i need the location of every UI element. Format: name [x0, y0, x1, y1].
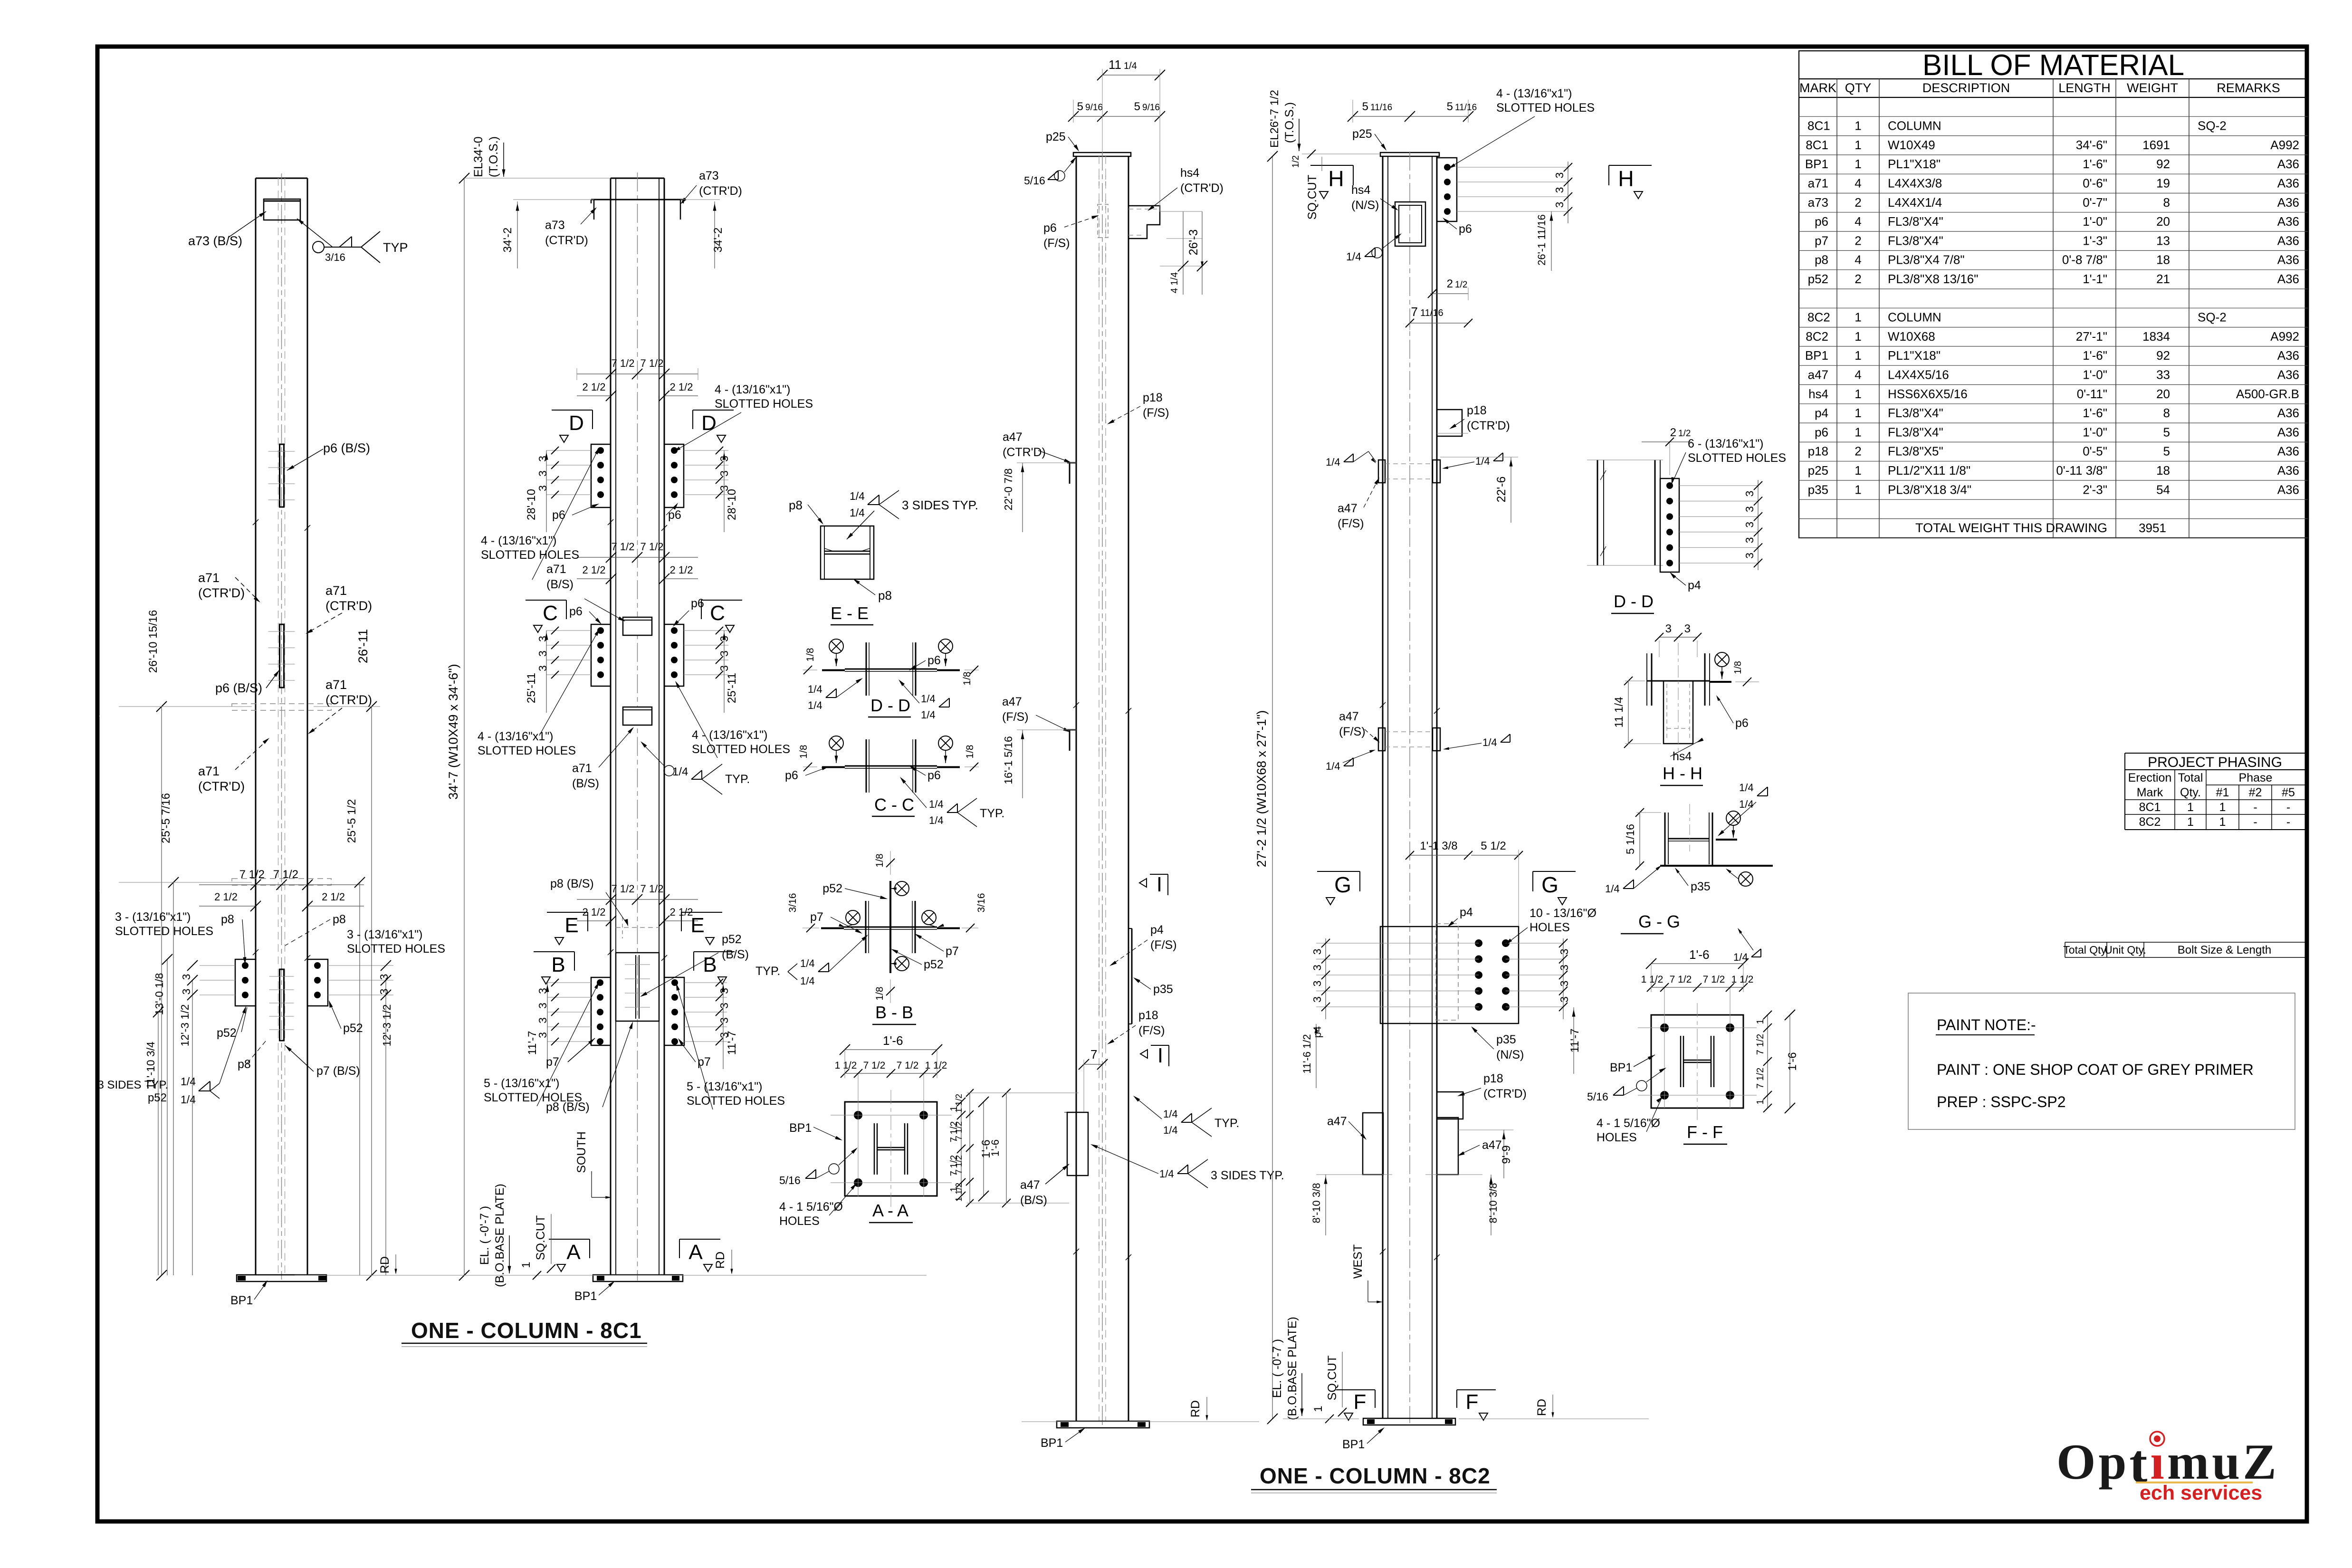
svg-text:1/2: 1/2	[1291, 155, 1301, 168]
svg-text:F: F	[1354, 1390, 1367, 1414]
svg-text:3/16: 3/16	[787, 893, 798, 913]
svg-text:(CTR'D): (CTR'D)	[1180, 182, 1224, 195]
svg-text:1/4: 1/4	[1739, 782, 1754, 794]
svg-text:5 1/2: 5 1/2	[1481, 840, 1506, 852]
svg-text:1: 1	[1855, 482, 1861, 497]
svg-text:p7 (B/S): p7 (B/S)	[316, 1064, 360, 1078]
svg-text:(N/S): (N/S)	[1351, 199, 1379, 212]
svg-text:a47: a47	[1020, 1178, 1040, 1192]
svg-text:7 1/2: 7 1/2	[954, 1155, 964, 1174]
svg-text:SQ-2: SQ-2	[2198, 119, 2227, 133]
svg-text:(CTR'D): (CTR'D)	[545, 234, 588, 247]
svg-text:3: 3	[378, 974, 390, 980]
svg-text:DESCRIPTION: DESCRIPTION	[1922, 81, 2010, 95]
svg-text:SLOTTED HOLES: SLOTTED HOLES	[115, 925, 213, 938]
svg-text:H: H	[1618, 166, 1634, 191]
svg-text:4 - 1 5/16"Ø: 4 - 1 5/16"Ø	[1597, 1117, 1660, 1130]
svg-text:0'-11 3/8": 0'-11 3/8"	[2056, 463, 2107, 478]
svg-text:FL3/8"X4": FL3/8"X4"	[1888, 425, 1943, 439]
svg-text:FL3/8"X4": FL3/8"X4"	[1888, 214, 1943, 229]
svg-text:1/4: 1/4	[929, 814, 944, 826]
svg-text:0'-6": 0'-6"	[2083, 176, 2107, 191]
svg-text:2: 2	[1670, 426, 1676, 439]
svg-text:p6: p6	[1735, 717, 1749, 730]
svg-text:7 1/2: 7 1/2	[641, 541, 664, 553]
svg-text:A36: A36	[2277, 482, 2299, 497]
svg-text:3: 3	[1311, 996, 1323, 1003]
svg-text:B: B	[703, 953, 717, 976]
svg-text:p8 (B/S): p8 (B/S)	[550, 877, 594, 890]
svg-text:p18: p18	[1808, 444, 1828, 459]
svg-text:(CTR'D): (CTR'D)	[1003, 446, 1046, 459]
svg-text:p6: p6	[668, 508, 681, 522]
svg-text:3: 3	[718, 1003, 730, 1009]
svg-text:1/4: 1/4	[672, 765, 688, 778]
svg-text:QTY: QTY	[1845, 81, 1872, 95]
svg-text:3: 3	[1743, 506, 1756, 512]
svg-text:WEST: WEST	[1351, 1244, 1365, 1279]
svg-text:TYP.: TYP.	[725, 773, 750, 786]
svg-text:SLOTTED HOLES: SLOTTED HOLES	[715, 397, 813, 411]
svg-text:11'-7: 11'-7	[1568, 1029, 1581, 1053]
svg-text:1: 1	[1755, 1019, 1766, 1024]
svg-text:PL1"X18": PL1"X18"	[1888, 348, 1941, 363]
svg-text:5 1/16: 5 1/16	[1624, 824, 1636, 854]
svg-text:H - H: H - H	[1663, 764, 1702, 783]
svg-text:7 1/2: 7 1/2	[612, 357, 635, 369]
svg-text:L4X4X5/16: L4X4X5/16	[1888, 368, 1949, 382]
svg-text:8: 8	[2163, 406, 2170, 420]
svg-text:A36: A36	[2277, 233, 2299, 248]
svg-text:A36: A36	[2277, 425, 2299, 439]
svg-text:5: 5	[1362, 100, 1368, 113]
svg-text:p6: p6	[1459, 222, 1472, 236]
svg-text:1 1/2: 1 1/2	[954, 1183, 964, 1202]
svg-text:(F/S): (F/S)	[1150, 938, 1177, 952]
svg-text:(B.O.BASE PLATE): (B.O.BASE PLATE)	[1286, 1317, 1299, 1420]
svg-text:(F/S): (F/S)	[1338, 517, 1364, 530]
svg-text:4: 4	[1855, 214, 1861, 229]
svg-text:BP1: BP1	[1805, 348, 1828, 363]
svg-text:A36: A36	[2277, 463, 2299, 478]
svg-text:(CTR'D): (CTR'D)	[1467, 419, 1510, 432]
svg-text:p4: p4	[1815, 406, 1828, 420]
svg-text:54: 54	[2156, 482, 2170, 497]
svg-text:11/16: 11/16	[1370, 103, 1392, 113]
svg-text:1'-1 3/8: 1'-1 3/8	[1420, 840, 1457, 852]
svg-text:3: 3	[1743, 522, 1756, 528]
svg-text:a47: a47	[1808, 368, 1828, 382]
svg-text:p52: p52	[1808, 272, 1828, 286]
svg-text:3: 3	[1743, 491, 1756, 497]
svg-text:1'-6: 1'-6	[1786, 1052, 1799, 1071]
svg-text:SLOTTED HOLES: SLOTTED HOLES	[484, 1091, 582, 1104]
svg-text:-: -	[2286, 801, 2290, 814]
svg-text:1'-6": 1'-6"	[2083, 348, 2107, 363]
svg-text:1/8: 1/8	[874, 986, 885, 1000]
svg-text:p35: p35	[1808, 482, 1828, 497]
svg-text:A36: A36	[2277, 406, 2299, 420]
svg-text:1/8: 1/8	[874, 853, 885, 867]
svg-text:1691: 1691	[2142, 138, 2170, 152]
svg-text:21: 21	[2156, 272, 2170, 286]
svg-text:27'-2 1/2 (W10X68 x 27'-1"): 27'-2 1/2 (W10X68 x 27'-1")	[1254, 710, 1269, 868]
svg-text:Phase: Phase	[2239, 771, 2273, 784]
svg-text:A: A	[566, 1241, 581, 1264]
svg-text:1: 1	[1755, 1099, 1766, 1104]
svg-text:FL3/8"X5": FL3/8"X5"	[1888, 444, 1943, 459]
svg-text:a47: a47	[1339, 710, 1359, 723]
svg-text:1'-6": 1'-6"	[2083, 157, 2107, 171]
svg-text:HOLES: HOLES	[779, 1214, 820, 1228]
svg-text:8: 8	[2163, 195, 2170, 210]
svg-text:26'-11: 26'-11	[356, 629, 370, 663]
svg-text:I: I	[1157, 873, 1162, 896]
svg-text:9/16: 9/16	[1085, 103, 1103, 113]
svg-text:(CTR'D): (CTR'D)	[198, 586, 245, 600]
svg-text:PL1/2"X11 1/8": PL1/2"X11 1/8"	[1888, 463, 1970, 478]
svg-text:(B/S): (B/S)	[546, 578, 574, 591]
svg-text:PROJECT PHASING: PROJECT PHASING	[2148, 755, 2282, 770]
svg-text:hs4: hs4	[1180, 166, 1199, 180]
svg-text:H: H	[1328, 166, 1344, 191]
svg-text:9/16: 9/16	[1142, 103, 1160, 113]
svg-text:a73: a73	[545, 219, 565, 232]
svg-text:BP1: BP1	[1342, 1438, 1365, 1451]
svg-text:1/4: 1/4	[808, 683, 822, 695]
svg-text:33: 33	[2156, 368, 2170, 382]
svg-text:EL. ( -0'-7 ): EL. ( -0'-7 )	[1271, 1339, 1284, 1398]
svg-text:2 1/2: 2 1/2	[670, 381, 693, 393]
svg-text:3: 3	[536, 485, 549, 491]
svg-text:1/2: 1/2	[1455, 280, 1467, 290]
svg-text:p6: p6	[927, 769, 941, 782]
svg-text:PL1"X18": PL1"X18"	[1888, 157, 1941, 171]
svg-text:16'-1 5/16: 16'-1 5/16	[1002, 736, 1014, 784]
svg-text:p6: p6	[1815, 214, 1828, 229]
svg-text:FL3/8"X4": FL3/8"X4"	[1888, 406, 1943, 420]
svg-text:p52: p52	[822, 882, 842, 895]
svg-text:p52: p52	[148, 1091, 167, 1104]
svg-text:1/4: 1/4	[1124, 61, 1137, 71]
svg-text:COLUMN: COLUMN	[1888, 310, 1941, 325]
svg-text:1: 1	[1855, 387, 1861, 401]
svg-text:2: 2	[1855, 444, 1861, 459]
svg-text:a71: a71	[325, 583, 347, 598]
svg-text:Total Qty.: Total Qty.	[2063, 944, 2108, 956]
svg-text:1: 1	[2219, 801, 2226, 814]
svg-text:5: 5	[1447, 100, 1453, 113]
svg-text:p7: p7	[546, 1055, 559, 1069]
svg-text:PREP : SSPC-SP2: PREP : SSPC-SP2	[1937, 1093, 2066, 1110]
svg-text:1'-0": 1'-0"	[2083, 214, 2107, 229]
svg-text:(B/S): (B/S)	[722, 948, 749, 961]
svg-text:(CTR'D): (CTR'D)	[198, 779, 245, 794]
svg-text:1/8: 1/8	[1733, 661, 1743, 674]
svg-text:a47: a47	[1338, 502, 1358, 515]
svg-text:SQ.CUT: SQ.CUT	[1326, 1356, 1339, 1400]
svg-text:1'-6: 1'-6	[883, 1033, 903, 1048]
svg-text:EL26'-7 1/2: EL26'-7 1/2	[1268, 90, 1281, 148]
svg-text:a47: a47	[1003, 430, 1023, 444]
svg-text:-: -	[2253, 815, 2257, 829]
svg-text:E: E	[564, 914, 578, 937]
svg-text:18: 18	[2156, 463, 2170, 478]
svg-text:p7: p7	[698, 1055, 711, 1069]
svg-text:p25: p25	[1808, 463, 1828, 478]
svg-text:8C1: 8C1	[1806, 138, 1828, 152]
svg-text:8C2: 8C2	[2139, 815, 2161, 829]
svg-text:A36: A36	[2277, 272, 2299, 286]
svg-text:1: 1	[1855, 119, 1861, 133]
svg-text:hs4: hs4	[1673, 750, 1692, 763]
svg-text:26'-1 11/16: 26'-1 11/16	[1536, 214, 1548, 266]
svg-text:20: 20	[2156, 214, 2170, 229]
svg-text:PL3/8"X18 3/4": PL3/8"X18 3/4"	[1888, 482, 1971, 497]
svg-text:a47: a47	[1002, 695, 1022, 708]
svg-text:p6: p6	[569, 605, 583, 618]
svg-text:D - D: D - D	[870, 696, 910, 715]
svg-text:(B.O.BASE PLATE): (B.O.BASE PLATE)	[493, 1184, 507, 1287]
svg-text:p8: p8	[333, 913, 346, 926]
svg-text:3/16: 3/16	[325, 251, 345, 263]
svg-text:a71: a71	[198, 764, 220, 778]
svg-text:1/4: 1/4	[1605, 883, 1620, 895]
svg-text:D - D: D - D	[1614, 592, 1654, 611]
svg-text:3: 3	[1311, 981, 1323, 987]
svg-text:3: 3	[180, 974, 192, 980]
svg-text:1/4: 1/4	[1163, 1124, 1178, 1136]
svg-text:1/4: 1/4	[1739, 798, 1754, 810]
svg-text:1'-3": 1'-3"	[2083, 233, 2107, 248]
svg-text:34'-7 (W10X49 x 34'-6"): 34'-7 (W10X49 x 34'-6")	[446, 664, 460, 800]
svg-text:27'-1": 27'-1"	[2076, 329, 2107, 344]
svg-text:(F/S): (F/S)	[1143, 406, 1169, 420]
svg-text:BP1: BP1	[230, 1294, 253, 1307]
svg-text:SLOTTED HOLES: SLOTTED HOLES	[692, 743, 790, 756]
svg-text:a47: a47	[1482, 1138, 1502, 1152]
svg-text:G - G: G - G	[1638, 912, 1680, 931]
svg-text:8'-10 3/8: 8'-10 3/8	[1310, 1183, 1322, 1224]
svg-text:4: 4	[1855, 253, 1861, 267]
svg-text:SLOTTED HOLES: SLOTTED HOLES	[478, 744, 576, 757]
svg-text:BP1: BP1	[1805, 157, 1828, 171]
svg-text:SQ-2: SQ-2	[2198, 310, 2227, 325]
svg-text:26'-3: 26'-3	[1187, 229, 1200, 256]
svg-text:3: 3	[1558, 981, 1570, 987]
svg-text:7 1/2: 7 1/2	[1703, 974, 1725, 985]
svg-text:a71: a71	[325, 678, 347, 692]
svg-text:RD: RD	[378, 1256, 392, 1273]
svg-text:1/4: 1/4	[1159, 1168, 1174, 1180]
svg-text:1/4: 1/4	[800, 975, 815, 987]
svg-text:1/4: 1/4	[850, 507, 865, 519]
svg-text:SQ.CUT: SQ.CUT	[534, 1215, 547, 1260]
svg-text:1: 1	[2187, 801, 2194, 814]
svg-text:7 1/2: 7 1/2	[239, 868, 265, 881]
svg-text:SLOTTED HOLES: SLOTTED HOLES	[481, 548, 579, 562]
svg-text:BP1: BP1	[1041, 1436, 1063, 1450]
svg-text:-: -	[2286, 815, 2290, 829]
svg-text:2: 2	[1855, 272, 1861, 286]
svg-text:1/8: 1/8	[805, 648, 816, 661]
svg-text:(T.O.S.): (T.O.S.)	[1283, 102, 1296, 143]
svg-text:RD: RD	[1189, 1400, 1202, 1417]
svg-text:F - F: F - F	[1687, 1122, 1723, 1142]
svg-text:3: 3	[536, 1017, 549, 1023]
svg-text:11: 11	[1109, 57, 1121, 72]
svg-text:1/4: 1/4	[1163, 1108, 1178, 1120]
svg-text:11'-7: 11'-7	[726, 1031, 738, 1055]
svg-text:7 1/2: 7 1/2	[1755, 1068, 1766, 1089]
svg-text:WEIGHT: WEIGHT	[2127, 81, 2178, 95]
svg-text:A500-GR.B: A500-GR.B	[2236, 387, 2299, 401]
svg-text:34'-6": 34'-6"	[2076, 138, 2107, 152]
svg-text:SLOTTED HOLES: SLOTTED HOLES	[687, 1094, 785, 1108]
svg-text:1'-0": 1'-0"	[2083, 368, 2107, 382]
svg-text:7 1/2: 7 1/2	[897, 1060, 919, 1071]
svg-text:1: 1	[1855, 310, 1861, 325]
svg-text:1834: 1834	[2142, 329, 2170, 344]
svg-text:3: 3	[1558, 965, 1570, 971]
svg-text:BP1: BP1	[574, 1290, 597, 1303]
svg-text:A36: A36	[2277, 348, 2299, 363]
svg-text:3: 3	[378, 989, 390, 995]
svg-text:20: 20	[2156, 387, 2170, 401]
svg-text:BP1: BP1	[1610, 1061, 1632, 1074]
svg-text:1/8: 1/8	[965, 745, 975, 758]
svg-text:p8: p8	[878, 588, 892, 602]
svg-text:(B/S): (B/S)	[1020, 1194, 1047, 1207]
svg-text:3: 3	[536, 1003, 549, 1009]
svg-text:11/16: 11/16	[1420, 308, 1444, 318]
svg-text:TYP.: TYP.	[755, 965, 780, 978]
svg-text:1/4: 1/4	[850, 490, 865, 502]
svg-text:4 - (13/16"x1"): 4 - (13/16"x1")	[481, 534, 557, 547]
svg-text:B: B	[551, 953, 565, 976]
svg-text:1: 1	[1855, 329, 1861, 344]
svg-text:C - C: C - C	[874, 795, 914, 814]
svg-text:26'-10 15/16: 26'-10 15/16	[147, 610, 160, 673]
svg-text:3: 3	[536, 650, 549, 657]
svg-text:p6: p6	[691, 597, 704, 610]
svg-text:(F/S): (F/S)	[1043, 237, 1070, 250]
svg-text:1/4: 1/4	[921, 693, 936, 705]
svg-text:HOLES: HOLES	[1530, 921, 1570, 934]
svg-text:28'-10: 28'-10	[525, 489, 538, 520]
svg-text:a73: a73	[1808, 195, 1828, 210]
svg-text:p18: p18	[1467, 404, 1487, 417]
svg-text:2 1/2: 2 1/2	[583, 564, 606, 576]
svg-text:1: 1	[1855, 138, 1861, 152]
svg-text:MARK: MARK	[1799, 81, 1836, 95]
svg-text:PAINT NOTE:-: PAINT NOTE:-	[1937, 1016, 2036, 1033]
svg-text:19: 19	[2156, 176, 2170, 191]
svg-text:10 - 13/16"Ø: 10 - 13/16"Ø	[1530, 907, 1597, 920]
svg-text:p18: p18	[1483, 1072, 1503, 1085]
svg-text:HOLES: HOLES	[1597, 1131, 1637, 1144]
svg-text:7 1/2: 7 1/2	[273, 868, 298, 881]
svg-text:0'-8 7/8": 0'-8 7/8"	[2062, 253, 2107, 267]
svg-text:p6: p6	[927, 654, 941, 667]
svg-text:1'-6": 1'-6"	[2083, 406, 2107, 420]
svg-text:1: 1	[520, 1262, 533, 1268]
svg-text:2: 2	[1855, 233, 1861, 248]
svg-text:p52: p52	[924, 958, 944, 971]
svg-text:p7: p7	[1815, 233, 1828, 248]
svg-text:A36: A36	[2277, 444, 2299, 459]
svg-text:3: 3	[1665, 622, 1672, 635]
svg-text:A36: A36	[2277, 214, 2299, 229]
svg-text:C: C	[710, 602, 725, 625]
svg-text:25'-11: 25'-11	[525, 673, 538, 703]
svg-text:34'-2: 34'-2	[501, 228, 514, 253]
svg-text:25'-11: 25'-11	[726, 673, 738, 703]
svg-text:hs4: hs4	[1808, 387, 1828, 401]
svg-text:1: 1	[1855, 425, 1861, 439]
svg-text:Total: Total	[2178, 771, 2203, 784]
svg-text:1/4: 1/4	[921, 709, 936, 721]
svg-text:p6: p6	[785, 769, 798, 782]
svg-text:8C1: 8C1	[1807, 119, 1830, 133]
svg-text:LENGTH: LENGTH	[2058, 81, 2111, 95]
svg-text:5 - (13/16"x1"): 5 - (13/16"x1")	[687, 1080, 763, 1093]
svg-text:p18: p18	[1143, 391, 1163, 404]
svg-text:a71: a71	[1808, 176, 1828, 191]
svg-text:5: 5	[2163, 425, 2170, 439]
svg-text:22'-6: 22'-6	[1495, 477, 1508, 503]
svg-text:#2: #2	[2249, 786, 2262, 799]
svg-text:A36: A36	[2277, 176, 2299, 191]
svg-text:12'-3 1/2: 12'-3 1/2	[179, 1004, 191, 1047]
svg-text:1 1/2: 1 1/2	[1641, 974, 1664, 985]
svg-text:0'-5": 0'-5"	[2083, 444, 2107, 459]
svg-text:TYP.: TYP.	[1214, 1117, 1239, 1130]
svg-text:PL3/8"X8 13/16": PL3/8"X8 13/16"	[1888, 272, 1979, 286]
svg-text:9'-9: 9'-9	[1500, 1145, 1513, 1164]
svg-text:13: 13	[2156, 233, 2170, 248]
svg-text:Erection: Erection	[2128, 771, 2172, 784]
svg-text:a73: a73	[699, 169, 719, 182]
svg-text:p8: p8	[238, 1058, 251, 1071]
svg-text:5: 5	[2163, 444, 2170, 459]
svg-text:25'-5 7/16: 25'-5 7/16	[160, 793, 172, 843]
svg-text:1/4: 1/4	[1482, 736, 1497, 748]
svg-text:1/4: 1/4	[1326, 456, 1340, 468]
svg-text:TOTAL WEIGHT THIS DRAWING: TOTAL WEIGHT THIS DRAWING	[1915, 521, 2107, 535]
svg-text:4 - (13/16"x1"): 4 - (13/16"x1")	[1496, 87, 1572, 100]
svg-text:28'-10: 28'-10	[726, 489, 738, 520]
svg-text:3: 3	[1743, 553, 1756, 559]
svg-text:(F/S): (F/S)	[1138, 1024, 1165, 1037]
svg-text:1/4: 1/4	[1346, 250, 1361, 263]
svg-text:5/16: 5/16	[779, 1174, 801, 1186]
svg-text:7 1/2: 7 1/2	[641, 883, 664, 895]
svg-text:1 1/2: 1 1/2	[954, 1094, 964, 1113]
svg-text:BP1: BP1	[789, 1121, 812, 1135]
svg-text:1/4: 1/4	[929, 798, 944, 810]
svg-text:p18: p18	[1138, 1009, 1158, 1022]
svg-text:A36: A36	[2277, 368, 2299, 382]
svg-text:p52: p52	[217, 1026, 237, 1040]
svg-text:1/4: 1/4	[181, 1093, 196, 1106]
svg-text:4 - (13/16"x1"): 4 - (13/16"x1")	[692, 728, 768, 742]
svg-text:(B/S): (B/S)	[572, 777, 599, 790]
svg-text:p6: p6	[552, 508, 565, 522]
svg-text:p52: p52	[722, 933, 742, 946]
svg-text:11'-6 1/2: 11'-6 1/2	[1301, 1034, 1313, 1073]
svg-text:p7: p7	[810, 910, 823, 924]
